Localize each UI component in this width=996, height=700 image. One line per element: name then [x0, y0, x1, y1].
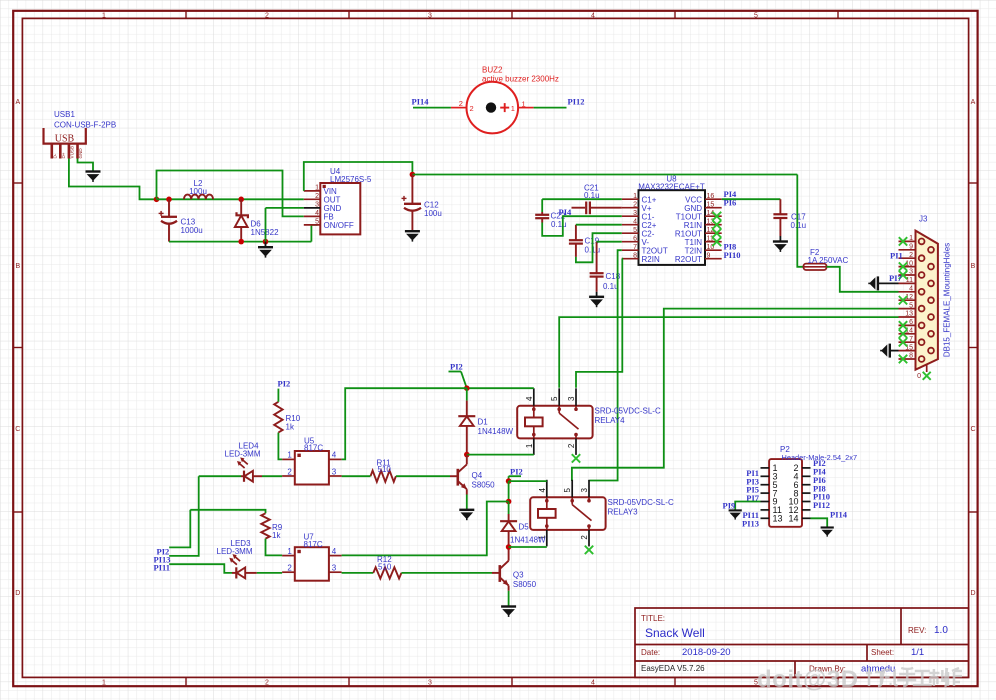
svg-text:6: 6 — [909, 319, 913, 326]
resistor R11 510 — [371, 471, 396, 482]
svg-text:1k: 1k — [272, 531, 281, 540]
svg-text:3: 3 — [633, 210, 637, 217]
svg-text:PI10: PI10 — [724, 250, 741, 260]
svg-text:1: 1 — [102, 679, 106, 686]
wire T2OUT down to relay3 NO — [590, 250, 622, 480]
wire LED3 anode to U7 pin2 — [245, 572, 257, 574]
svg-text:817C: 817C — [304, 540, 323, 549]
svg-text:PI12: PI12 — [568, 97, 585, 107]
svg-text:6: 6 — [633, 236, 637, 243]
svg-text:D1: D1 — [478, 418, 489, 427]
svg-text:R2IN: R2IN — [642, 255, 660, 264]
svg-text:4: 4 — [332, 547, 337, 556]
svg-text:1: 1 — [315, 185, 319, 192]
svg-text:D-: D- — [52, 153, 57, 158]
wire VIN up-over to C12 node — [304, 162, 413, 191]
svg-text:0.1u: 0.1u — [551, 220, 567, 229]
wire U7 pin4 to PI2 net — [342, 502, 509, 556]
svg-text:Q3: Q3 — [513, 571, 524, 580]
svg-text:1: 1 — [287, 547, 292, 556]
svg-text:2: 2 — [470, 104, 474, 113]
wire collector to relay4 pin1 — [467, 454, 534, 456]
svg-text:J3: J3 — [919, 215, 928, 224]
svg-text:2: 2 — [265, 679, 269, 686]
wire P2 pin14 to ground — [811, 518, 828, 527]
svg-text:817C: 817C — [304, 444, 323, 453]
capacitor C17 0.1u — [779, 199, 781, 214]
svg-text:5: 5 — [909, 302, 913, 309]
svg-text:15: 15 — [707, 202, 715, 209]
svg-text:PI2: PI2 — [278, 378, 291, 388]
transistor Q3 S8050 — [492, 572, 500, 574]
svg-text:PI14: PI14 — [830, 510, 848, 520]
svg-text:MAX3232ECAE+T: MAX3232ECAE+T — [638, 182, 705, 191]
svg-text:RELAY4: RELAY4 — [595, 416, 626, 425]
wire V- row — [597, 241, 622, 243]
junction relay3 coil feed — [506, 478, 512, 484]
wire relay3 pole to DB15 pin5 — [572, 309, 899, 481]
wire pin1 row — [542, 198, 622, 200]
svg-text:5: 5 — [563, 488, 572, 493]
svg-text:13: 13 — [773, 514, 783, 524]
wire C12 node east — [412, 174, 797, 176]
svg-text:SRD-05VDC-SL-C: SRD-05VDC-SL-C — [595, 407, 661, 416]
svg-text:14: 14 — [788, 514, 798, 524]
svg-text:R2OUT: R2OUT — [675, 255, 702, 264]
svg-text:3: 3 — [332, 564, 337, 573]
wire Q3 collector to relay3 pin1 — [509, 546, 547, 548]
led LED4 LED-3MM — [243, 471, 245, 482]
svg-text:16: 16 — [707, 193, 715, 200]
svg-text:PI13: PI13 — [742, 518, 759, 528]
wire to relay3 pin4 — [509, 480, 547, 482]
svg-text:5: 5 — [633, 227, 637, 234]
svg-text:510: 510 — [378, 465, 392, 474]
svg-text:1A 250VAC: 1A 250VAC — [808, 256, 849, 265]
wire R9 to U7 pin1 — [266, 539, 283, 556]
svg-text:2: 2 — [567, 443, 576, 448]
svg-text:B: B — [15, 263, 20, 270]
junction D1 top — [464, 385, 470, 391]
svg-text:1: 1 — [909, 235, 913, 242]
wire input rail to U4 OUT — [157, 198, 304, 200]
svg-text:Date:: Date: — [641, 648, 660, 657]
wire P2 pin9 to ground — [735, 502, 760, 510]
wire LED4 anode to U5 pin2 — [253, 475, 262, 477]
svg-text:PI2: PI2 — [510, 467, 523, 477]
svg-text:PI11: PI11 — [154, 563, 171, 573]
svg-text:B: B — [971, 263, 976, 270]
svg-text:CON-USB-F-2PB: CON-USB-F-2PB — [54, 121, 116, 130]
svg-text:DB15_FEMALE_MountingHoles: DB15_FEMALE_MountingHoles — [943, 243, 952, 357]
ground under Q4 — [459, 510, 474, 520]
svg-text:PI7: PI7 — [889, 273, 903, 283]
wire GND tap vertical — [265, 208, 267, 242]
svg-text:3: 3 — [580, 488, 589, 493]
relay RELAY3 SRD-05VDC-SL-C — [530, 497, 605, 530]
connector USB1 CON-USB-F-2PB — [44, 128, 86, 144]
ground under C17 — [773, 242, 788, 252]
diode D5 1N4148W — [508, 502, 510, 515]
ground under C12 — [405, 231, 420, 241]
svg-text:LED-3MM: LED-3MM — [217, 547, 253, 556]
svg-text:PI12: PI12 — [813, 500, 830, 510]
transistor Q4 S8050 — [450, 475, 458, 477]
svg-text:PI9: PI9 — [723, 501, 736, 511]
wire PI2 down to D5 — [508, 481, 510, 501]
svg-text:EasyEDA V5.7.26: EasyEDA V5.7.26 — [641, 664, 705, 673]
svg-text:3: 3 — [332, 467, 337, 476]
wire R10 to U5 pin1 — [278, 433, 282, 460]
svg-text:13: 13 — [905, 311, 913, 318]
svg-text:1N4148W: 1N4148W — [478, 427, 514, 436]
svg-text:D: D — [970, 590, 975, 597]
svg-text:9: 9 — [909, 244, 913, 251]
ground below rail — [265, 242, 267, 247]
junction C12 node — [410, 172, 416, 178]
watermark — [757, 666, 859, 693]
ground at P2 pin14 — [821, 528, 834, 537]
header P2 Header-Male-2.54_2x7 — [769, 459, 802, 527]
resistor R10 1k — [274, 402, 282, 433]
wire bottom rail — [169, 241, 311, 243]
svg-text:S8050: S8050 — [513, 580, 537, 589]
svg-text:LED-3MM: LED-3MM — [225, 450, 261, 459]
wire LED3 cathode stub — [232, 572, 236, 574]
wire R2IN down to relay4 NO — [576, 259, 622, 388]
svg-text:doit@3D: doit@3D — [757, 666, 859, 693]
svg-text:4: 4 — [332, 451, 337, 460]
svg-text:1: 1 — [525, 443, 534, 448]
ground under Q3 — [501, 607, 516, 617]
optocoupler U7 817C — [295, 547, 329, 581]
wire C12 node down to F2 — [797, 175, 803, 267]
junction Q3 collector — [506, 544, 512, 550]
svg-text:SRD-05VDC-SL-C: SRD-05VDC-SL-C — [608, 498, 674, 507]
svg-text:4: 4 — [591, 12, 595, 19]
svg-text:2: 2 — [287, 467, 292, 476]
svg-text:0.1u: 0.1u — [603, 282, 619, 291]
svg-text:7: 7 — [909, 336, 913, 343]
wire buzzer right — [534, 107, 567, 109]
svg-text:TITLE:: TITLE: — [641, 614, 665, 623]
svg-text:4: 4 — [591, 679, 595, 686]
svg-text:1: 1 — [102, 12, 106, 19]
resistor R12 510 — [373, 567, 401, 578]
svg-text:VUSB: VUSB — [70, 146, 75, 159]
wire node A up-over to FB — [157, 171, 304, 217]
svg-text:D+: D+ — [61, 152, 66, 158]
svg-text:Snack Well: Snack Well — [645, 626, 705, 640]
wire USB GND pin to ground — [78, 159, 94, 171]
svg-text:5: 5 — [550, 396, 559, 401]
wire VCC to C17 — [722, 198, 781, 200]
svg-text:1: 1 — [522, 99, 526, 108]
wire C22 loop to C1- — [542, 216, 622, 236]
capacitor C12 100u — [411, 175, 413, 204]
svg-text:USB: USB — [55, 134, 75, 145]
led LED3 LED-3MM — [235, 567, 237, 578]
wire to U4 GND pin — [266, 207, 304, 209]
wire U7 pin3 to R12 — [342, 572, 374, 574]
node A junction — [154, 197, 160, 203]
svg-text:PI4: PI4 — [559, 207, 573, 217]
ground at DB15 pin11 — [878, 282, 899, 284]
wire R11 to Q4 base — [396, 475, 450, 477]
svg-text:3: 3 — [315, 202, 319, 209]
svg-text:S8050: S8050 — [472, 481, 496, 490]
svg-text:Sheet:: Sheet: — [871, 648, 894, 657]
wire U5 pin3 to R11 — [342, 475, 371, 477]
wire LED4 cathode left — [199, 475, 241, 477]
wire R12 to Q3 base — [401, 572, 492, 574]
inductor L2 100u — [184, 195, 213, 200]
svg-text:3: 3 — [909, 269, 913, 276]
svg-text:4: 4 — [315, 210, 319, 217]
junction D6 bottom — [238, 239, 244, 245]
svg-text:4: 4 — [538, 488, 547, 493]
svg-text:A: A — [15, 99, 20, 106]
junction C13 top — [166, 197, 172, 203]
svg-text:2: 2 — [315, 193, 319, 200]
svg-text:5: 5 — [315, 219, 319, 226]
capacitor C13 1000u — [168, 199, 170, 216]
ground at DB15 pin15 — [890, 350, 899, 352]
svg-text:1: 1 — [511, 104, 515, 113]
svg-text:7: 7 — [633, 244, 637, 251]
svg-text:1: 1 — [287, 451, 292, 460]
svg-text:1k: 1k — [286, 423, 295, 432]
svg-text:GND: GND — [78, 148, 83, 159]
ic U8 MAX3232ECAE+T — [639, 190, 706, 265]
wire C19 loop to C2- — [576, 233, 622, 262]
svg-text:2: 2 — [459, 99, 463, 108]
svg-text:C: C — [970, 426, 975, 433]
junction ground tap — [263, 239, 269, 245]
diode D6 1N5822 — [240, 199, 242, 215]
svg-text:1/1: 1/1 — [911, 647, 924, 658]
svg-text:3: 3 — [428, 679, 432, 686]
resistor R9 1k — [261, 513, 269, 538]
voltage regulator U4 LM2576S-5 — [320, 183, 360, 234]
wire relay4 pole to DB15 pin13 — [559, 317, 898, 388]
svg-text:BUZ2: BUZ2 — [482, 66, 503, 75]
svg-text:2: 2 — [265, 12, 269, 19]
svg-text:D: D — [15, 590, 20, 597]
svg-text:510: 510 — [378, 562, 392, 571]
junction U7 pin4 tap — [506, 499, 512, 505]
wire USB VUSB to node A — [69, 159, 157, 200]
svg-text:4: 4 — [909, 286, 913, 293]
capacitor C22 0.1u — [541, 199, 543, 212]
svg-text:8: 8 — [909, 353, 913, 360]
svg-text:100u: 100u — [424, 209, 442, 218]
fuse F2 1A 250VAC — [804, 264, 827, 270]
svg-text:A: A — [971, 99, 976, 106]
svg-text:ON/OFF: ON/OFF — [324, 221, 354, 230]
svg-text:PI1: PI1 — [890, 250, 903, 260]
svg-text:PI14: PI14 — [412, 97, 430, 107]
capacitor C18 0.1u — [596, 242, 598, 273]
svg-text:0.1u: 0.1u — [791, 221, 807, 230]
svg-text:LM2576S-5: LM2576S-5 — [330, 175, 372, 184]
svg-text:0: 0 — [917, 373, 921, 380]
svg-text:D5: D5 — [519, 523, 530, 532]
svg-text:active buzzer 2300Hz: active buzzer 2300Hz — [482, 75, 559, 84]
title block — [635, 608, 969, 677]
svg-text:2: 2 — [580, 535, 589, 540]
svg-text:Q4: Q4 — [472, 471, 483, 480]
wire U5 pin4 up to PI2 net — [342, 388, 467, 459]
svg-text:8: 8 — [633, 253, 637, 260]
wire buzzer left — [413, 107, 451, 109]
svg-text:1: 1 — [633, 193, 637, 200]
optocoupler U5 817C — [295, 451, 329, 485]
svg-text:100u: 100u — [189, 187, 207, 196]
svg-text:4: 4 — [633, 219, 637, 226]
svg-text:REV:: REV: — [908, 626, 926, 635]
svg-text:3: 3 — [428, 12, 432, 19]
svg-text:2: 2 — [909, 252, 913, 259]
ground under USB1 — [86, 172, 101, 182]
buzzer BUZ2 — [467, 82, 519, 134]
connector J3 DB15 — [916, 231, 938, 370]
svg-text:4: 4 — [525, 396, 534, 401]
svg-text:1.0: 1.0 — [934, 625, 948, 636]
svg-text:3: 3 — [567, 396, 576, 401]
svg-text:USB1: USB1 — [54, 110, 75, 119]
svg-text:9: 9 — [707, 253, 711, 260]
svg-text:1000u: 1000u — [181, 226, 203, 235]
svg-text:C: C — [15, 426, 20, 433]
relay RELAY4 SRD-05VDC-SL-C — [517, 406, 592, 439]
svg-text:2: 2 — [633, 202, 637, 209]
wire rail up to ON/OFF — [311, 225, 317, 242]
capacitor C21 0.1u — [572, 207, 586, 209]
svg-text:2018-09-20: 2018-09-20 — [682, 647, 731, 658]
capacitor C19 0.1u — [575, 225, 577, 240]
svg-text:1N4148W: 1N4148W — [510, 536, 546, 545]
junction D6 top — [238, 197, 244, 203]
wire C2+ row — [576, 224, 622, 226]
svg-text:RELAY3: RELAY3 — [608, 508, 639, 517]
svg-text:2: 2 — [287, 564, 292, 573]
diode D1 1N4148W — [466, 388, 468, 400]
junction Q4 collector — [464, 452, 470, 458]
ground under C18 — [589, 297, 604, 307]
svg-text:PI2: PI2 — [450, 361, 463, 371]
svg-text:5: 5 — [754, 12, 758, 19]
wire F2 to DB15 pin4 — [827, 267, 899, 292]
wire PI2 row to R9 — [190, 510, 265, 514]
ground at P2 pin9 — [729, 510, 742, 519]
wire relay4 coil feed — [467, 387, 534, 389]
